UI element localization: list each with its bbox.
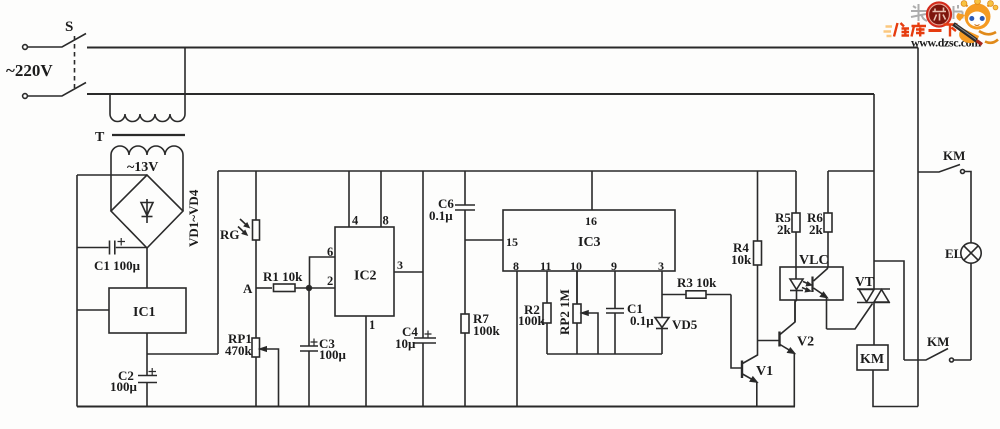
svg-text:C1 100μ: C1 100μ [94, 258, 141, 273]
svg-text:100μ: 100μ [319, 347, 347, 362]
svg-text:9: 9 [611, 259, 617, 273]
IC2 pin 3 [394, 271, 423, 273]
contact KM top [918, 165, 971, 243]
IC1 [109, 288, 186, 333]
capacitor C4 [414, 171, 436, 407]
transformer T core [112, 134, 185, 136]
wire left rail [76, 175, 78, 407]
wire AC line 2 [87, 93, 874, 95]
capacitor C6 [455, 171, 475, 314]
svg-text:3: 3 [397, 258, 403, 272]
IC2 pin 6 [310, 257, 336, 288]
mascot [954, 0, 999, 45]
svg-text:11: 11 [540, 259, 551, 273]
IC3 [503, 210, 675, 271]
wire bottom ground rail [77, 406, 795, 408]
triac VT [857, 94, 890, 345]
svg-text:2k: 2k [809, 222, 824, 237]
capacitor C2 [138, 368, 157, 407]
wire IC1 output to supply rail riser [147, 353, 218, 355]
wire IC1 bottom [146, 333, 148, 375]
IC3 pin 11 [546, 271, 548, 303]
svg-text:~220V: ~220V [6, 61, 53, 80]
svg-text:VT: VT [855, 274, 874, 289]
svg-text:2: 2 [327, 274, 333, 288]
VLC LED [790, 279, 811, 322]
char PIAN gray [954, 5, 963, 19]
wire bridge top to left rail [77, 174, 147, 176]
svg-text:EL: EL [945, 246, 963, 261]
switch S pole 2 [28, 83, 87, 97]
svg-text:T: T [95, 130, 105, 145]
red text WEI KU YI XIA [894, 23, 958, 37]
IC2 [335, 227, 394, 316]
wire opto emitter to triac gate [827, 304, 873, 330]
svg-text:VD5: VD5 [672, 317, 698, 332]
svg-text:3: 3 [658, 259, 664, 273]
svg-text:S: S [65, 19, 73, 35]
VLC phototransistor [813, 267, 828, 329]
svg-text:IC1: IC1 [133, 305, 156, 320]
svg-text:15: 15 [506, 235, 518, 249]
relay coil KM [857, 345, 888, 370]
wire triac top to holding branch [874, 261, 904, 360]
svg-text:6: 6 [327, 245, 333, 259]
svg-text:10μ: 10μ [395, 336, 416, 351]
svg-text:V1: V1 [756, 364, 773, 379]
svg-text:0.1μ: 0.1μ [429, 208, 453, 223]
switch S link (dashed) [74, 36, 76, 88]
junction dot node [307, 286, 312, 291]
IC3 pin 15 [465, 239, 503, 241]
wire timing bus [547, 353, 662, 355]
IC2 pin 8 [380, 171, 382, 227]
IC3 pin 16 [591, 171, 593, 210]
AC input terminal top [23, 45, 28, 50]
svg-text:16: 16 [585, 214, 597, 228]
potentiometer RP2 [573, 271, 598, 354]
bridge rectifier VD1~VD4 [111, 175, 183, 248]
svg-text:100k: 100k [473, 323, 501, 338]
svg-text:VLC: VLC [799, 253, 829, 268]
svg-text:~13V: ~13V [127, 160, 158, 175]
resistor R4 [754, 171, 762, 341]
wire V1 collector to V2 base [758, 340, 780, 342]
yellow speed streaks [884, 27, 893, 37]
lamp EL [961, 243, 981, 360]
optocoupler VLC [780, 267, 843, 300]
resistor R1 [256, 284, 335, 292]
resistor R5 [792, 171, 800, 279]
svg-text:A: A [243, 281, 253, 296]
resistor R3 [662, 291, 731, 298]
svg-text:V2: V2 [797, 335, 814, 350]
svg-text:8: 8 [383, 214, 389, 228]
IC3 pin 8 [516, 271, 518, 407]
transformer T secondary [111, 146, 183, 211]
svg-text:KM: KM [943, 148, 965, 163]
resistor R6 [824, 171, 832, 267]
transformer T primary [110, 48, 185, 122]
IC3 pin 10 [576, 271, 578, 304]
svg-text:VD1~VD4: VD1~VD4 [186, 189, 201, 247]
resistor R2 [543, 303, 551, 354]
svg-text:IC2: IC2 [354, 269, 377, 284]
photoresistor RG [238, 171, 260, 288]
capacitor C1 (timing) [606, 309, 624, 355]
wire bridge bottom to IC1 [146, 248, 148, 288]
svg-text:R3 10k: R3 10k [677, 275, 717, 290]
watermark logo [884, 0, 999, 50]
wire R3 to V1 base [731, 295, 741, 369]
svg-text:KM: KM [860, 352, 884, 367]
svg-text:RP2 1M: RP2 1M [557, 289, 572, 335]
contact KM bottom [904, 349, 971, 363]
wire KM coil to right rail [873, 370, 918, 407]
svg-text:470k: 470k [225, 343, 253, 358]
svg-text:4: 4 [352, 214, 359, 228]
svg-text:100μ: 100μ [110, 379, 138, 394]
IC3 pin 9 [614, 271, 616, 308]
svg-text:100k: 100k [518, 313, 546, 328]
IC2 pin 1 [365, 316, 367, 407]
potentiometer RP1 [252, 288, 279, 407]
svg-text:8: 8 [513, 259, 519, 273]
svg-text:R1 10k: R1 10k [263, 269, 303, 284]
svg-text:IC3: IC3 [578, 235, 601, 250]
transistor V2 [780, 300, 796, 407]
svg-text:10: 10 [570, 259, 582, 273]
svg-text:10k: 10k [731, 252, 752, 267]
wire right rail [917, 48, 919, 407]
svg-text:0.1μ: 0.1μ [630, 313, 654, 328]
svg-text:KM: KM [927, 334, 949, 349]
wire IC1 left to rail [77, 309, 109, 311]
capacitor C3 [300, 288, 318, 407]
wire AC line 1 (top rail) [87, 47, 918, 49]
wire supply riser [217, 171, 219, 354]
svg-text:1: 1 [369, 318, 375, 332]
resistor R7 [461, 314, 469, 407]
AC input terminal bottom [23, 94, 28, 99]
wire R6 top to mains branch [828, 170, 874, 172]
svg-text:RG: RG [220, 227, 240, 242]
svg-text:2k: 2k [777, 222, 792, 237]
wire supply rail [218, 170, 796, 172]
IC2 pin 4 [348, 171, 350, 227]
transistor V1 [742, 341, 758, 407]
char WO gray [911, 4, 927, 21]
capacitor C1 (filter) [77, 238, 147, 255]
magnifier circle with XIN [927, 3, 951, 27]
switch S pole 1 [28, 34, 87, 48]
diode VD5 [655, 318, 669, 355]
IC3 pin 3 [661, 271, 663, 318]
